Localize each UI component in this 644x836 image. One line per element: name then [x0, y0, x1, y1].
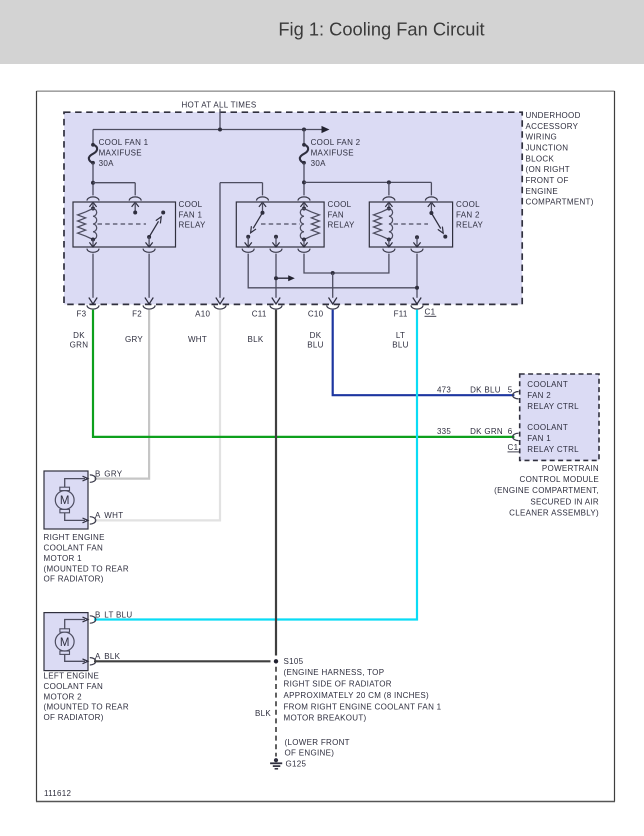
- svg-text:(MOUNTED TO REAR: (MOUNTED TO REAR: [44, 564, 129, 573]
- relay K2 coil (winding with resistor): [300, 209, 304, 240]
- svg-text:COOL: COOL: [456, 200, 480, 209]
- svg-text:FAN 2: FAN 2: [456, 210, 480, 219]
- relay K2 linkage (dashed): [261, 223, 300, 225]
- wire DK BLU from C10 to PCM pin 5: [333, 310, 515, 395]
- svg-text:6: 6: [508, 427, 513, 436]
- relay K2 coil top pin: [298, 197, 310, 201]
- svg-text:COOL: COOL: [328, 200, 352, 209]
- svg-text:ACCESSORY: ACCESSORY: [526, 122, 579, 131]
- relay K1 switch bottom pin: [148, 237, 150, 247]
- svg-text:FAN 1: FAN 1: [527, 434, 551, 443]
- relay K2 switch arm: [253, 213, 262, 229]
- svg-text:FAN 2: FAN 2: [527, 391, 551, 400]
- svg-text:RELAY: RELAY: [328, 220, 356, 229]
- svg-text:COOL: COOL: [179, 200, 203, 209]
- svg-text:WHT: WHT: [104, 511, 123, 520]
- motor M1 pin A wire: [65, 513, 85, 521]
- fuse F2: COOL FAN 2 MAXIFUSE 30A: [303, 130, 305, 145]
- wire relay K2 switch output to terminal A10: [220, 182, 263, 184]
- svg-text:A10: A10: [195, 310, 210, 319]
- svg-text:WHT: WHT: [188, 335, 207, 344]
- svg-text:MOTOR 1: MOTOR 1: [44, 554, 83, 563]
- svg-text:30A: 30A: [99, 159, 114, 168]
- terminal C11 exit arrow and cup: [272, 298, 280, 305]
- svg-text:BLOCK: BLOCK: [526, 154, 555, 163]
- svg-text:WIRING: WIRING: [526, 133, 558, 142]
- svg-text:G125: G125: [286, 759, 307, 768]
- relay K3 switch arm: [431, 213, 440, 229]
- svg-text:MOTOR 2: MOTOR 2: [44, 692, 83, 701]
- relay K1 switch arm: [149, 221, 158, 237]
- svg-text:OF ENGINE): OF ENGINE): [285, 748, 335, 757]
- svg-text:BLK: BLK: [104, 652, 120, 661]
- relay K2: COOL FAN RELAY box: [236, 202, 324, 247]
- terminal F2 exit arrow and cup: [145, 298, 153, 305]
- wire from HOT label to bus: [219, 109, 221, 130]
- svg-text:OF RADIATOR): OF RADIATOR): [44, 713, 104, 722]
- relay K2 stub contact pin: [274, 235, 278, 239]
- svg-text:COOL FAN 2: COOL FAN 2: [311, 138, 361, 147]
- svg-text:LT BLU: LT BLU: [104, 610, 132, 619]
- relay K3 coil bottom pin: [388, 240, 390, 247]
- svg-text:S105: S105: [284, 657, 304, 666]
- svg-text:APPROXIMATELY 20 CM (8 INCHES): APPROXIMATELY 20 CM (8 INCHES): [284, 691, 430, 700]
- junction dot on bus at HOT tick: [218, 128, 222, 132]
- svg-text:Fig 1: Cooling Fan Circuit: Fig 1: Cooling Fan Circuit: [278, 19, 484, 40]
- svg-text:5: 5: [508, 385, 513, 394]
- svg-text:GRN: GRN: [70, 341, 89, 350]
- svg-text:LT: LT: [396, 331, 405, 340]
- svg-text:CONTROL MODULE: CONTROL MODULE: [520, 475, 599, 484]
- wire relay K1 coil to terminal F3: [92, 254, 94, 298]
- svg-text:GRY: GRY: [104, 469, 122, 478]
- relay K3 switch open contact: [443, 235, 447, 239]
- relay K2 switch bottom contact: [246, 235, 250, 239]
- svg-text:MOTOR BREAKOUT): MOTOR BREAKOUT): [284, 714, 367, 723]
- PCM pin 5 cup: [513, 392, 519, 399]
- wire fuse F2 output to relay K2 and relay K3: [303, 163, 305, 195]
- svg-text:473: 473: [437, 385, 451, 394]
- svg-text:(ENGINE HARNESS, TOP: (ENGINE HARNESS, TOP: [284, 668, 385, 677]
- svg-text:C1: C1: [508, 443, 519, 452]
- svg-text:MAXIFUSE: MAXIFUSE: [311, 149, 354, 158]
- svg-text:BLK: BLK: [247, 335, 263, 344]
- motor M1 box: [44, 471, 88, 529]
- terminal F3 exit arrow and cup: [89, 298, 97, 305]
- svg-text:BLU: BLU: [392, 341, 408, 350]
- relay K3 stub contact pin: [415, 235, 419, 239]
- wire fuse F1 output to relay K1: [92, 163, 94, 195]
- motor M1 symbol: [60, 487, 70, 490]
- motor M1 pin B wire: [65, 479, 85, 488]
- svg-text:RELAY: RELAY: [179, 220, 207, 229]
- relay K3: COOL FAN 2 RELAY box: [369, 202, 452, 247]
- wire relay K1 switch to terminal F2: [148, 254, 150, 298]
- svg-text:RELAY CTRL: RELAY CTRL: [527, 445, 579, 454]
- svg-text:A: A: [95, 511, 101, 520]
- wire coil commons to terminal C10 (line A): [304, 254, 389, 273]
- svg-text:COOL FAN 1: COOL FAN 1: [99, 138, 149, 147]
- svg-text:C1: C1: [425, 308, 436, 317]
- svg-text:CLEANER ASSEMBLY): CLEANER ASSEMBLY): [509, 509, 599, 518]
- svg-text:F11: F11: [394, 310, 408, 319]
- svg-text:COOLANT FAN: COOLANT FAN: [44, 544, 104, 553]
- relay K3 switch top pin: [425, 197, 437, 201]
- svg-text:FROM RIGHT ENGINE COOLANT FAN: FROM RIGHT ENGINE COOLANT FAN 1: [284, 702, 442, 711]
- svg-text:BLK: BLK: [255, 709, 271, 718]
- relay K1: COOL FAN 1 RELAY box: [73, 202, 176, 247]
- motor M2 pin A wire: [65, 654, 85, 661]
- svg-text:30A: 30A: [311, 159, 326, 168]
- diagram frame: [37, 91, 615, 802]
- wire WHT from A10 to motor M1 pin A: [94, 310, 220, 521]
- relay K3 linkage (dashed): [394, 223, 429, 225]
- junction dot on bus at fuse 2 drop: [302, 128, 306, 132]
- splice S105: [274, 659, 278, 663]
- svg-text:UNDERHOOD: UNDERHOOD: [526, 111, 581, 120]
- svg-text:111612: 111612: [44, 789, 72, 798]
- svg-text:(ON RIGHT: (ON RIGHT: [526, 165, 570, 174]
- svg-text:COOLANT: COOLANT: [527, 380, 568, 389]
- branch arrow on C11 net: [276, 277, 289, 279]
- svg-text:JUNCTION: JUNCTION: [526, 143, 569, 152]
- svg-text:(ENGINE COMPARTMENT,: (ENGINE COMPARTMENT,: [494, 486, 599, 495]
- svg-text:COMPARTMENT): COMPARTMENT): [526, 198, 594, 207]
- svg-text:A: A: [95, 652, 101, 661]
- svg-text:FAN 1: FAN 1: [179, 210, 203, 219]
- relay K1 switch feed stub: [129, 197, 141, 201]
- svg-text:B: B: [95, 610, 101, 619]
- terminal F11 exit arrow and cup: [413, 298, 421, 305]
- powertrain control module (dashed box): [520, 374, 599, 460]
- svg-text:(MOUNTED TO REAR: (MOUNTED TO REAR: [44, 703, 129, 712]
- svg-text:ENGINE: ENGINE: [526, 187, 558, 196]
- wire LT BLU from F11 to motor M2 pin B: [94, 310, 417, 620]
- svg-text:LEFT ENGINE: LEFT ENGINE: [44, 672, 100, 681]
- svg-text:RELAY CTRL: RELAY CTRL: [527, 402, 579, 411]
- svg-text:F3: F3: [76, 310, 86, 319]
- relay K1 coil bottom pin: [92, 240, 94, 247]
- svg-text:SECURED IN AIR: SECURED IN AIR: [530, 497, 599, 506]
- wire BLK from C11 to splice S105: [275, 310, 277, 656]
- relay K1 coil top pin: [87, 197, 99, 201]
- svg-text:HOT AT ALL TIMES: HOT AT ALL TIMES: [181, 100, 256, 109]
- svg-text:COOLANT FAN: COOLANT FAN: [44, 682, 104, 691]
- relay K1 linkage (dashed): [98, 223, 147, 225]
- svg-text:F2: F2: [132, 310, 142, 319]
- svg-text:BLU: BLU: [307, 341, 323, 350]
- svg-text:M: M: [60, 637, 70, 649]
- svg-text:RELAY: RELAY: [456, 220, 484, 229]
- svg-text:DK GRN: DK GRN: [470, 427, 503, 436]
- motor M2 symbol: [60, 629, 70, 632]
- underhood accessory wiring junction block (dashed box): [64, 112, 522, 304]
- svg-text:(LOWER FRONT: (LOWER FRONT: [285, 738, 350, 747]
- relay K2 switch top pin: [257, 197, 269, 201]
- relay K3 coil top pin: [383, 197, 395, 201]
- fuse F1: COOL FAN 1 MAXIFUSE 30A: [92, 130, 94, 145]
- svg-text:COOLANT: COOLANT: [527, 423, 568, 432]
- relay K3 coil (winding with resistor): [389, 209, 393, 240]
- svg-text:FAN: FAN: [328, 210, 344, 219]
- wire motor M2 pin A to splice S105 (BLK): [94, 660, 271, 662]
- svg-text:C10: C10: [308, 310, 324, 319]
- motor M2 pin B wire: [65, 620, 85, 629]
- svg-text:POWERTRAIN: POWERTRAIN: [542, 464, 599, 473]
- wire relay K2 stub to terminal C11: [275, 254, 277, 298]
- wire relay K3 stub to terminal F11: [416, 254, 418, 298]
- svg-text:DK BLU: DK BLU: [470, 385, 501, 394]
- relay K2 coil bottom pin: [303, 240, 305, 247]
- svg-text:M: M: [60, 495, 70, 507]
- title bar: [0, 0, 644, 64]
- relay K1 switch fixed contact: [161, 211, 165, 215]
- motor M2 box: [44, 613, 88, 671]
- terminal A10 exit arrow and cup: [216, 298, 224, 305]
- PCM pin 6 cup: [513, 433, 519, 440]
- svg-text:DK: DK: [73, 331, 85, 340]
- ground G125: [274, 758, 278, 762]
- svg-text:B: B: [95, 469, 101, 478]
- svg-text:335: 335: [437, 427, 451, 436]
- svg-text:RIGHT ENGINE: RIGHT ENGINE: [44, 533, 105, 542]
- wire relay K2 contact to F11 net (line B): [248, 254, 417, 288]
- svg-text:MAXIFUSE: MAXIFUSE: [99, 149, 142, 158]
- svg-text:FRONT OF: FRONT OF: [526, 176, 569, 185]
- wire GRY from F2 to motor M1 pin B: [94, 310, 149, 479]
- svg-text:C11: C11: [252, 310, 267, 319]
- wire DK GRN from F3 to PCM pin 6: [93, 310, 514, 437]
- svg-text:RIGHT SIDE OF RADIATOR: RIGHT SIDE OF RADIATOR: [284, 680, 392, 689]
- svg-text:GRY: GRY: [125, 335, 143, 344]
- bus wire (hot at all times feed): [93, 129, 322, 131]
- relay K1 coil (winding with resistor): [93, 209, 97, 240]
- svg-text:OF RADIATOR): OF RADIATOR): [44, 575, 104, 584]
- wire BLK splice to ground (dashed): [275, 667, 277, 757]
- svg-text:DK: DK: [310, 331, 322, 340]
- terminal C10 exit arrow and cup: [329, 298, 337, 305]
